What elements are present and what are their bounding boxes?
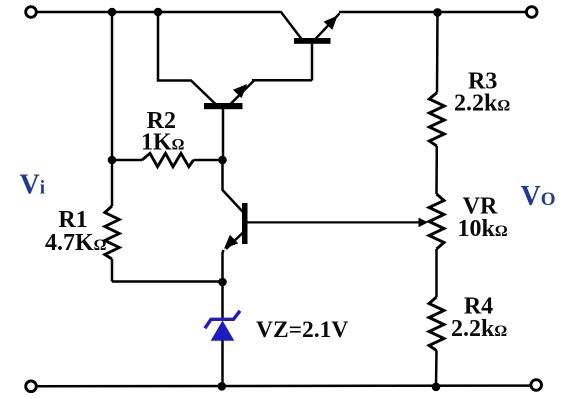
wire VR to R4 — [435, 249, 438, 297]
wire Q3 collector branch — [223, 160, 243, 212]
node Q1 base / R2 / Q3 collector — [218, 156, 227, 165]
resistor R2 — [112, 153, 223, 166]
wire R4 bottom lead — [435, 351, 438, 387]
transistor Q2 — [281, 12, 340, 81]
node top rail / R1 branch — [108, 8, 117, 17]
resistor R1 — [105, 160, 120, 282]
wire top rail left — [37, 11, 282, 14]
node R1 / R2 junction — [108, 156, 117, 165]
transistor Q3 — [223, 203, 248, 282]
node top rail / Q1 collector branch — [154, 8, 163, 17]
node Q3 emitter / R1 / zener cathode — [218, 278, 227, 287]
wire top rail right — [339, 11, 527, 14]
wire Q1 collector branch — [158, 12, 216, 104]
node bottom rail / zener anode — [218, 382, 227, 391]
resistor R4 — [429, 297, 444, 351]
output terminal top-right — [526, 7, 537, 18]
wire R3 to VR — [435, 146, 438, 194]
zener diode VZ — [205, 311, 240, 341]
node bottom rail / R4 branch — [432, 383, 441, 392]
wire R3 top lead — [436, 12, 439, 93]
svg-text:VZ=2.1V: VZ=2.1V — [256, 317, 348, 343]
potentiometer VR — [429, 194, 444, 249]
input terminal top-left — [26, 7, 37, 18]
wire zener cathode — [221, 282, 224, 320]
output terminal bottom-right — [531, 380, 542, 391]
wire R1 branch upper — [111, 12, 114, 160]
wire Q3 base to VR wiper — [248, 221, 421, 223]
wire Q1 emitter to Q2 base — [252, 79, 312, 82]
node top rail / R3 branch — [433, 8, 442, 17]
input terminal bottom-left — [26, 381, 37, 392]
resistor R3 — [429, 93, 444, 147]
wire bottom rail — [37, 384, 532, 387]
wire zener anode — [221, 341, 224, 387]
VR wiper arrow — [419, 218, 429, 228]
wire R1 bottom to Q3 emitter node — [112, 280, 223, 283]
transistor Q1 — [204, 81, 254, 161]
